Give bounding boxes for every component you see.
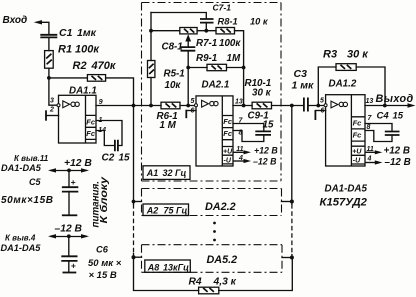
svg-text:30 к: 30 к: [347, 49, 369, 61]
svg-text:1 мк: 1 мк: [292, 80, 315, 92]
svg-text:+U: +U: [352, 149, 362, 156]
svg-text:5: 5: [191, 98, 195, 105]
wire R1 to node: [48, 68, 50, 78]
wire output Выход: [365, 105, 410, 107]
svg-text:Fс: Fс: [223, 117, 233, 126]
svg-text:100к: 100к: [75, 44, 100, 56]
wire C1 to R1: [48, 37, 50, 50]
svg-text:DA1-DA5: DA1-DA5: [1, 163, 42, 173]
wire A8 input: [134, 256, 142, 258]
wire pin14 to C2: [96, 131, 115, 146]
wire left branch vertical: [150, 13, 152, 61]
power arrow pin11 DA2.1: [234, 151, 246, 153]
wire pin8 to C9-1: [233, 131, 264, 142]
svg-text:С8-1: С8-1: [162, 42, 183, 53]
capacitor C4: [385, 132, 400, 136]
svg-text:R4: R4: [189, 276, 202, 287]
svg-text:DA1.2: DA1.2: [329, 79, 357, 90]
svg-text:DA2.2: DA2.2: [205, 201, 236, 213]
svg-text:10к: 10к: [165, 80, 182, 91]
capacitor C6: [68, 236, 70, 256]
svg-text:100к: 100к: [219, 38, 241, 49]
svg-text:75 Гц: 75 Гц: [164, 206, 188, 216]
svg-text:питания.: питания.: [90, 181, 102, 228]
svg-text:4: 4: [367, 156, 372, 163]
svg-text:13: 13: [366, 98, 374, 105]
capacitor C7-1: [200, 19, 214, 23]
wire pin7 to C4: [365, 124, 392, 132]
tab label A1: [143, 166, 190, 180]
svg-text:Fс: Fс: [353, 118, 363, 127]
filter block A2 dash-dot frame: [142, 188, 282, 190]
svg-text:К выв.4: К выв.4: [5, 234, 36, 243]
long wire filters output line: [291, 106, 293, 202]
tab label A8: [145, 260, 191, 272]
svg-text:Выход: Выход: [376, 93, 414, 105]
svg-text:15: 15: [393, 110, 404, 121]
wire DA2.1 output: [233, 105, 252, 107]
capacitor C3: [304, 98, 308, 112]
svg-text:15: 15: [119, 153, 131, 164]
capacitor C5: [68, 170, 70, 186]
node C7-1/R8-1 junction: [204, 29, 208, 33]
svg-text:К157УД2: К157УД2: [320, 196, 368, 208]
svg-text:С1: С1: [59, 27, 73, 39]
capacitor C8-1: [181, 47, 196, 51]
resistor R1: [45, 51, 54, 69]
svg-text:+12 В: +12 В: [64, 158, 92, 169]
node R9-1/R8-1 right junction: [242, 66, 246, 70]
capacitor C2: [115, 140, 118, 151]
svg-text:R2: R2: [73, 60, 87, 72]
svg-text:-U: -U: [224, 158, 232, 165]
wire A1 inner top: [151, 13, 206, 19]
wire C8-1 down: [187, 51, 189, 106]
power arrow pin4 DA1.2: [366, 162, 378, 164]
wire pin1 to C2: [96, 121, 122, 146]
resistor R6-1: [161, 102, 180, 109]
svg-text:DA1-DA5: DA1-DA5: [1, 243, 42, 253]
svg-text:С6: С6: [96, 244, 109, 254]
node R9-1 left junction: [186, 66, 190, 70]
node DA1.1 output junction: [132, 104, 136, 108]
svg-text:DA5.2: DA5.2: [207, 254, 238, 266]
svg-text:С2: С2: [102, 153, 115, 164]
svg-text:А1: А1: [146, 168, 159, 178]
resistor R2: [49, 78, 134, 106]
svg-text:Fс: Fс: [86, 129, 96, 138]
svg-text:5: 5: [320, 97, 324, 104]
ground pin 6 DA1.2: [315, 110, 325, 112]
resistor R10-1: [252, 102, 271, 109]
wire A2 input: [134, 201, 142, 203]
power arrow pin4 DA2.1: [234, 160, 246, 162]
ground pin 2: [46, 115, 59, 117]
tab label A2: [143, 204, 189, 216]
main bus wire: [134, 105, 162, 107]
svg-text:R1: R1: [58, 44, 72, 56]
resistor R3 feedback: [318, 67, 385, 106]
svg-text:10 к: 10 к: [250, 17, 269, 27]
svg-text:9: 9: [99, 99, 103, 106]
capacitor C9-1: [255, 131, 271, 135]
svg-text:А8: А8: [147, 263, 160, 273]
wire pin8 to C4: [365, 131, 392, 142]
svg-text:30 к: 30 к: [252, 88, 272, 99]
svg-text:С3: С3: [294, 68, 308, 80]
wire R10-1 to C3: [272, 105, 304, 107]
svg-text:2: 2: [49, 107, 54, 114]
wire A2 output: [282, 201, 292, 203]
node R7-1 left junction: [149, 29, 153, 33]
svg-text:13кГц: 13кГц: [163, 263, 189, 273]
wire A8 output: [282, 257, 292, 259]
filter block A8 dash-dot frame: [142, 244, 283, 246]
svg-text:R5-1: R5-1: [164, 69, 185, 80]
ground pin 6: [186, 110, 196, 112]
svg-text:К выв.11: К выв.11: [14, 154, 49, 163]
svg-text:–12 В: –12 В: [253, 156, 277, 166]
svg-text:1мк: 1мк: [77, 27, 97, 39]
node filter output junction: [290, 104, 294, 108]
svg-text:Fс: Fс: [223, 129, 233, 138]
wire output 9: [96, 105, 134, 107]
wire R5-1 to bus: [150, 78, 152, 106]
long wire filters input line: [133, 106, 135, 205]
svg-text:4,3 к: 4,3 к: [213, 276, 237, 287]
svg-text:+: +: [71, 261, 76, 271]
svg-text:А2: А2: [146, 206, 159, 216]
svg-text:Fс: Fс: [353, 130, 363, 139]
svg-text:50 мк ×: 50 мк ×: [88, 258, 122, 269]
wire node to pin3: [49, 78, 57, 105]
svg-text:R8-1: R8-1: [218, 17, 238, 27]
svg-text:DA1-DA5: DA1-DA5: [325, 184, 368, 195]
wire input arrow: [37, 22, 49, 35]
svg-text:С7-1: С7-1: [213, 3, 232, 13]
svg-text:R7-1: R7-1: [196, 38, 217, 49]
resistor R4: [199, 287, 219, 294]
node pin13/R8-1 junction: [242, 104, 246, 108]
resistor R5-1: [148, 61, 155, 78]
svg-text:+12 В: +12 В: [254, 146, 278, 156]
svg-text:Fс: Fс: [86, 117, 96, 126]
node bus C8-1 junction: [186, 104, 190, 108]
svg-text:+U: +U: [223, 149, 233, 156]
svg-text:R9-1: R9-1: [196, 53, 217, 64]
wire pin7 to C9-1: [233, 124, 264, 132]
ellipsis dots: [213, 222, 216, 225]
svg-text:1М: 1М: [227, 53, 241, 64]
wiper arrow R7-1: [187, 40, 189, 47]
svg-text:–12 В: –12 В: [385, 157, 411, 168]
power arrow pin11 DA1.2: [366, 151, 378, 153]
svg-text:+: +: [71, 177, 76, 187]
resistor R8-1: [206, 31, 243, 106]
svg-text:13: 13: [235, 98, 243, 105]
svg-text:× 15 В: × 15 В: [89, 270, 117, 281]
svg-text:Вход: Вход: [3, 15, 28, 26]
svg-text:DA2.1: DA2.1: [202, 80, 230, 91]
svg-text:15: 15: [263, 120, 274, 131]
svg-text:R3: R3: [323, 49, 337, 61]
node C1/R2/pin3 junction: [47, 76, 51, 80]
svg-text:50мк×15В: 50мк×15В: [1, 195, 54, 206]
svg-text:–12 В: –12 В: [55, 224, 83, 235]
svg-text:1 М: 1 М: [160, 120, 177, 131]
resistor R9-1: [188, 67, 243, 69]
filter block A1 dash-dot frame: [142, 2, 282, 4]
resistor R7-1 (trimmer): [151, 30, 206, 32]
svg-text:3: 3: [50, 98, 54, 105]
svg-text:32 Гц: 32 Гц: [163, 168, 187, 178]
svg-text:С4: С4: [377, 110, 390, 121]
svg-text:-U: -U: [353, 158, 361, 165]
capacitor C1: [40, 35, 57, 38]
svg-text:470к: 470к: [91, 60, 117, 72]
wire C3 to DA1.2: [308, 105, 324, 107]
svg-text:С5: С5: [29, 177, 41, 187]
node bus R5-1 junction: [149, 104, 153, 108]
svg-text:+12 В: +12 В: [384, 146, 410, 157]
